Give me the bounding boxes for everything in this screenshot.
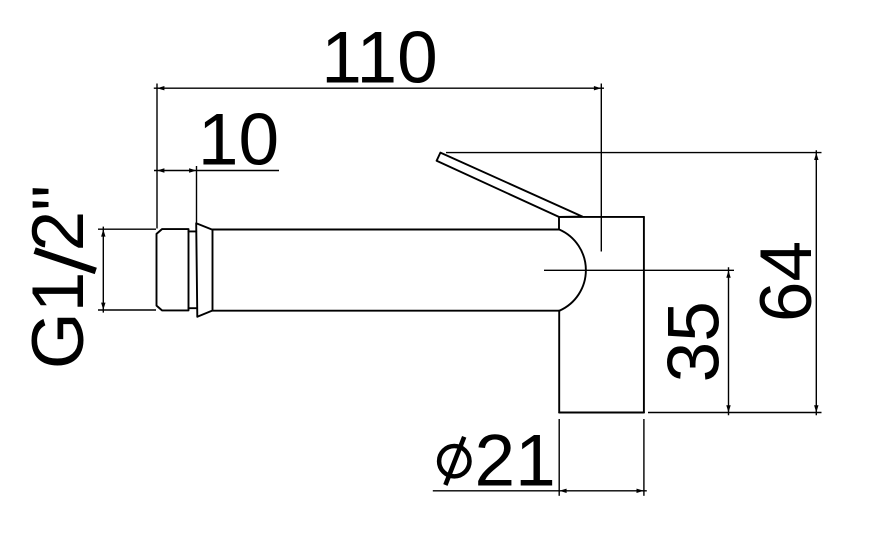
svg-text:35: 35: [654, 301, 735, 382]
dim 110 left extension line: [156, 84, 158, 229]
cone flange: [196, 223, 212, 317]
arrow dim110 left: [157, 86, 164, 90]
svg-text:G1 2": G1 2": [18, 185, 99, 369]
horizontal spout tube top edge: [213, 229, 560, 231]
tube end cap arc: [559, 230, 586, 311]
slash of G1/2 label: [35, 251, 96, 271]
dim 35 top extension line (tube centerline): [544, 269, 734, 271]
dim d21 right extension line: [643, 419, 645, 496]
svg-text:10: 10: [198, 100, 279, 181]
svg-text:21: 21: [475, 420, 556, 501]
svg-text:110: 110: [321, 18, 437, 99]
arrow dim10 right: [189, 168, 196, 172]
diameter symbol circle: [439, 446, 469, 476]
dim 110 line: [154, 87, 604, 89]
valve body top edge: [559, 216, 644, 218]
arrow dim10 left: [157, 168, 164, 172]
neck groove between thread and cone: [189, 231, 197, 308]
dim 64 top extension line: [446, 152, 822, 154]
diameter symbol slash: [445, 437, 464, 485]
valve body right edge: [643, 217, 645, 413]
arrow dimD21 left: [559, 489, 566, 493]
arrow dim35 top: [726, 270, 730, 277]
arrow dimG12 bottom: [101, 303, 105, 310]
lever handle: [437, 153, 583, 217]
valve body bottom edge: [559, 412, 644, 414]
threaded nipple G1/2: [157, 229, 189, 310]
dim 110 right extension line: [600, 84, 602, 252]
horizontal spout tube bottom edge: [213, 310, 560, 312]
dim G1/2 line: [102, 227, 104, 313]
valve body left edge upper stub: [558, 217, 560, 230]
arrow dimG12 top: [101, 229, 105, 236]
dim d21 left extension line: [558, 419, 560, 496]
arrow dim64 bottom: [814, 405, 818, 412]
svg-text:64: 64: [746, 241, 827, 322]
dim G1/2 extension lines: [98, 229, 156, 310]
dim 35 line: [728, 267, 730, 415]
dim 10 right extension line: [196, 166, 198, 223]
arrow dim110 right: [594, 86, 601, 90]
valve body left edge lower: [558, 311, 560, 413]
arrow dim35 bottom: [726, 405, 730, 412]
dim 64 bottom extension line: [648, 412, 822, 414]
dim d21 line: [433, 490, 647, 492]
arrow dim64 top: [814, 153, 818, 160]
arrow dimD21 right: [637, 489, 644, 493]
dim 10 line: [154, 170, 279, 172]
dim 64 line: [815, 150, 817, 415]
